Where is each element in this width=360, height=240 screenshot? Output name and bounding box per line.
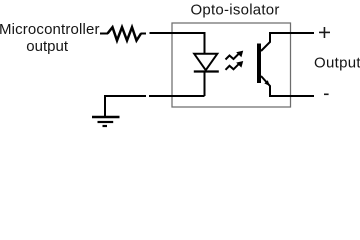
svg-text:Opto-isolator: Opto-isolator (191, 1, 280, 18)
svg-text:Output: Output (314, 55, 360, 72)
svg-text:output: output (26, 38, 69, 55)
svg-text:Microcontroller: Microcontroller (0, 21, 100, 38)
